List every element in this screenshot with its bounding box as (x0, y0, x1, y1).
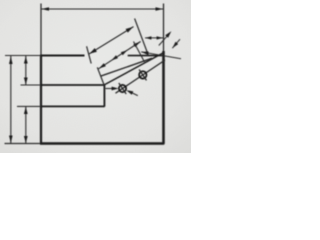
part top-right edge (128, 55, 164, 57)
extension tail y=85 (21, 84, 42, 86)
inclined dimension D1 (89, 27, 134, 54)
inclined extension line EL2 (135, 19, 149, 57)
hole symbol 2 (139, 71, 146, 78)
short leader beyond right edge with down-left arrow (172, 39, 180, 48)
extension line EL3 (134, 42, 145, 63)
step edge 1 (41, 84, 104, 86)
left dimension line 1 (overall height) (10, 56, 12, 144)
step edge 2 (41, 105, 105, 107)
small top-right dimension (145, 37, 163, 39)
inclined dimension D2 (99, 42, 141, 69)
horizontal-ish leader crossing right edge (141, 52, 181, 59)
thin inclined line A (101, 58, 153, 76)
inclined extension line EL1a (87, 46, 92, 63)
extension tail y=106 (17, 105, 41, 107)
part right edge (162, 51, 165, 144)
right extension line (top dim) (163, 4, 165, 52)
left dimension line 2 lower segment (25, 106, 27, 143)
inclined edge (104, 53, 163, 85)
hole symbol 1 (119, 85, 126, 92)
part bottom edge (40, 142, 164, 145)
left extension line (top dim) (40, 4, 42, 56)
inclined extension line EL1b (97, 67, 104, 85)
hole 2 cross tick (139, 70, 146, 81)
top dimension line (41, 8, 164, 10)
part left edge (40, 56, 42, 144)
opposed chained arrows on D2 (112, 55, 118, 60)
leader beyond right edge with up-right arrow (159, 35, 168, 46)
horizontal leader into hole 1 (106, 88, 117, 90)
extension tail bottom left (5, 143, 41, 145)
notch vertical edge (103, 84, 105, 106)
leader arrow into hole 1 from lower-right (129, 92, 138, 96)
hole 1 cross tick (119, 83, 126, 94)
left dimension line 2 upper segment (25, 56, 27, 85)
extension line y=56 left (5, 55, 41, 57)
centerline through holes (116, 60, 166, 93)
part top edge (40, 55, 85, 57)
